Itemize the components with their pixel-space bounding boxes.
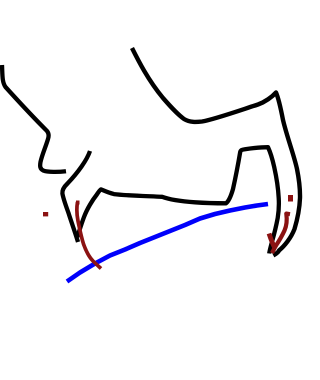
- node A: [43, 212, 48, 216]
- wire: [76, 201, 80, 205]
- wire: [2, 65, 66, 172]
- wire: [77, 147, 279, 253]
- wire: [269, 234, 275, 248]
- wire: [132, 48, 300, 255]
- wire: [62, 151, 90, 242]
- node B: [288, 195, 293, 202]
- wire: [77, 202, 101, 269]
- wire: [272, 214, 290, 253]
- wire: [67, 204, 268, 282]
